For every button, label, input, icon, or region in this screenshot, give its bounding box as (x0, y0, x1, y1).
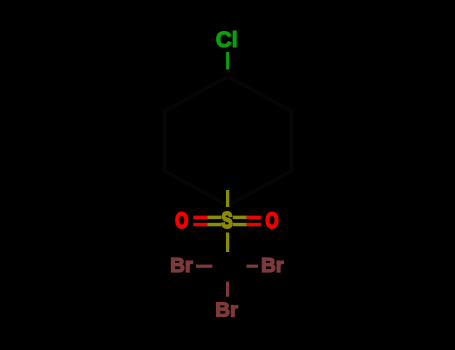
bond Cl-C : green half (226, 52, 229, 71)
bond S-C(Br3) : sulfur half (226, 233, 229, 253)
bond Cl-C : carbon half (226, 70, 229, 88)
bond C-Br right : carbon half (228, 265, 247, 268)
svg-text:O: O (175, 209, 188, 234)
svg-text:Cl: Cl (216, 27, 238, 52)
bond C-S : sulfur half (226, 190, 229, 207)
svg-text:O: O (266, 209, 279, 234)
benzene ring (carbon skeleton, near-black) (191, 87, 265, 173)
atom S label (221, 209, 232, 234)
bond C-Br left : bromine half (196, 265, 212, 268)
S=O double bond left (sulfur half) (208, 216, 222, 220)
S=O double bond left (red half) (193, 216, 207, 220)
bond C-Br left : carbon half (212, 265, 228, 268)
bond C-Br right : bromine half (247, 265, 259, 268)
bond S-C(Br3) : carbon half (226, 252, 229, 264)
atom O label right (266, 209, 279, 234)
S=O double bond right (sulfur half) (233, 216, 247, 220)
bond C-S : carbon half (226, 173, 229, 190)
bond C-Br bottom : carbon half (226, 268, 229, 282)
bond C-Br bottom : bromine half (226, 282, 229, 297)
atom O label left (175, 209, 188, 234)
ring inner double-bond lines (197, 95, 260, 166)
svg-text:Br: Br (261, 254, 284, 277)
S=O double bond right (red half) (247, 216, 261, 220)
svg-text:Br: Br (215, 299, 238, 322)
ghost large hexagon (faint artifact ring) (165, 77, 292, 207)
svg-text:Br: Br (170, 254, 193, 277)
svg-text:S: S (221, 209, 232, 234)
